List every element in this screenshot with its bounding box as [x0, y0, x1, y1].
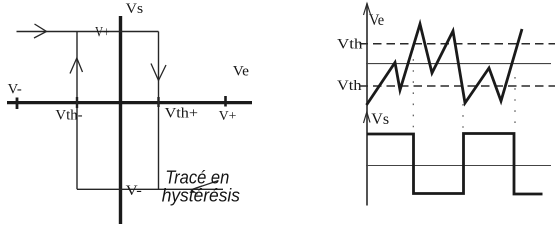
tick V- on Ve axis: [16, 98, 19, 110]
svg-text:Vth+: Vth+: [165, 106, 198, 122]
dotted vertical guide at first switching: [412, 48, 414, 132]
arrowhead top of Ve axis: [364, 4, 371, 16]
wire: loop top segment at V+ level: [17, 31, 159, 33]
svg-text:Ve: Ve: [233, 64, 250, 80]
dotted vertical guide at second switching: [462, 104, 464, 132]
middle reference line of Vs plot: [366, 165, 551, 167]
arrow up on left vertical: [70, 58, 83, 74]
svg-text:Ve: Ve: [369, 12, 384, 29]
svg-text:Vth-: Vth-: [55, 108, 82, 124]
wire: loop left vertical at Vth-: [76, 32, 78, 190]
svg-text:V-: V-: [126, 183, 142, 199]
dashed threshold line Vth-: [360, 85, 556, 87]
vertical axis (shared): [366, 4, 368, 206]
wire: loop bottom segment at V- level: [77, 188, 223, 190]
middle reference line of Ve plot: [366, 63, 551, 65]
vertical axis Vs: [119, 16, 122, 224]
svg-text:Vs: Vs: [371, 111, 389, 128]
annotation arrow from text to loop: [191, 181, 219, 190]
horizontal axis Ve: [7, 101, 252, 104]
dashed threshold line Vth+: [360, 43, 556, 45]
tick Vth+ on Ve axis: [157, 97, 159, 107]
svg-text:Vth: Vth: [337, 36, 363, 52]
tick V+ on Ve axis: [224, 96, 227, 107]
dotted vertical guide at third switching: [514, 77, 516, 132]
Vs square waveform: [367, 134, 543, 195]
arrow right on top segment: [34, 24, 47, 38]
svg-text:hystérésis: hystérésis: [162, 186, 240, 206]
arrow down on right vertical: [151, 64, 166, 81]
wire: loop right vertical at Vth+: [158, 32, 160, 190]
svg-text:V-: V-: [8, 82, 22, 98]
svg-text:V+: V+: [219, 109, 237, 124]
tick Vth- on Ve axis: [76, 97, 78, 108]
svg-text:Tracé en: Tracé en: [165, 168, 229, 188]
svg-text:Vth: Vth: [337, 78, 362, 94]
arrowhead of Vs axis: [364, 112, 371, 123]
svg-text:V+: V+: [95, 25, 109, 41]
svg-text:Vs: Vs: [126, 1, 144, 17]
Ve triangular waveform: [367, 24, 523, 105]
